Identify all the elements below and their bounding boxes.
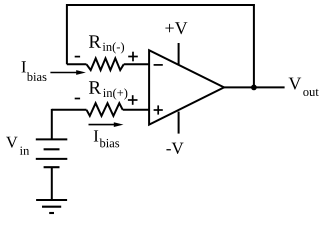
ground bar 3 [49,212,54,214]
wire: Vin corner vertical down to battery [51,109,53,139]
label Rin(-) R [89,35,101,47]
label +V supply [165,22,187,34]
op-amp inverting pin minus mark [154,64,163,66]
polarity minus annotation at Rin(+) [75,98,80,100]
wire: feedback left vertical [66,4,68,64]
battery Vin plate 1 (long, +) [36,138,68,140]
label Vout out sub [303,89,318,96]
resistor Rin(+) zigzag [87,103,123,116]
label Rin(+) in(+) sub [103,88,127,99]
polarity plus annotation at Rin(-) horizontal [128,56,138,58]
label Vin in sub [20,147,29,155]
Ibias arrow 1 head [76,70,86,75]
polarity minus annotation at Rin(-) [75,56,80,58]
wire: resistor Rin(-) to op-amp inverting pin [124,63,149,65]
op-amp non-inverting pin plus mark (vertical) [157,105,159,114]
wire: top feedback horizontal [66,4,255,6]
label Vin V [6,137,18,148]
polarity plus annotation at Rin(+) horizontal [128,99,138,101]
node: output junction dot [251,85,257,91]
polarity plus annotation at Rin(-) vertical [132,52,134,62]
ground bar 2 [42,206,61,208]
battery Vin plate 2 (short, -) [44,148,60,150]
op-amp non-inverting pin plus mark (horizontal) [154,109,163,111]
wire: op-amp output to Vout [223,86,285,88]
battery Vin plate 3 (long, +) [36,158,68,160]
wire: battery to ground [51,167,53,200]
wire: -V supply stub [178,112,180,134]
label Ibias-1 I [22,61,26,72]
label Ibias-2 I [94,130,98,141]
label Ibias-2 bias sub [100,139,120,148]
label Rin(-) in(-) sub [103,42,124,53]
ground bar 1 [36,199,67,201]
wire: inverting input segment (corner to resistor) [67,63,87,65]
Ibias arrow 1 shaft [50,72,78,74]
battery Vin plate 4 (short, -) [44,166,60,168]
op-amp U1 triangle [149,50,224,124]
Ibias arrow 2 head [114,122,124,127]
label Ibias-1 bias sub [27,72,47,81]
wire: non-inverting input segment (corner to resistor) [52,109,87,111]
Ibias arrow 2 shaft [89,124,116,126]
label -V supply [166,143,183,154]
wire: feedback right vertical [253,4,255,87]
wire: +V supply stub [178,43,180,65]
polarity plus annotation at Rin(+) vertical [132,95,134,105]
resistor Rin(-) zigzag [87,58,124,70]
label Vout V [289,78,302,90]
label Rin(+) R [89,81,101,93]
wire: resistor Rin(+) to op-amp non-inverting pin [123,109,149,111]
